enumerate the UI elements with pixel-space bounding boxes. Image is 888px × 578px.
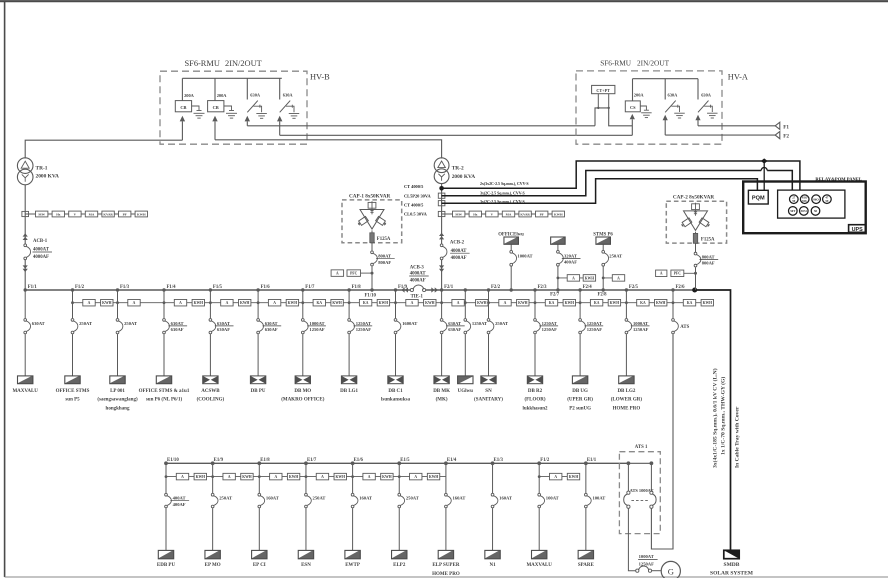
svg-text:400AF: 400AF [564,260,577,265]
wire F2/6 ATS feeder down to transfer switch [651,334,673,549]
svg-text:Hz: Hz [473,213,478,217]
metering rail under main bus [73,302,713,304]
feeder UG (UGlwu) [458,288,488,394]
svg-text:KWH: KWH [332,301,342,305]
svg-text:400AT: 400AT [173,496,186,501]
load-break switch 630A no.1 (HV-B) [245,78,267,126]
svg-text:3x(4x1/C-185 Sq.mm.), 0.6/1 kV: 3x(4x1/C-185 Sq.mm.), 0.6/1 kV CV (L,N) [712,368,719,468]
svg-text:KWH: KWH [569,475,579,479]
svg-text:A: A [179,301,182,305]
PQM wire 2 with cable label and hop [442,168,793,196]
svg-text:50: 50 [814,209,818,213]
svg-text:4000AF: 4000AF [451,256,467,261]
svg-text:F2: F2 [783,134,789,140]
wire CB1 to TR-1 [25,140,182,158]
svg-text:HOME PRO: HOME PRO [613,407,641,412]
svg-text:250AT: 250AT [79,321,92,326]
svg-text:F1/5: F1/5 [213,285,223,290]
svg-text:EWTP: EWTP [345,563,360,568]
fuse F125A (CAP-1) [370,230,391,242]
svg-text:200A: 200A [184,93,195,98]
bus node F1/10 (CAP-1 tap) [370,288,373,291]
svg-text:1250AT: 1250AT [542,321,557,326]
svg-text:630A: 630A [701,92,712,97]
PFC controller stub (CAP-2) [656,270,697,277]
svg-text:3x(2C-2.5 Sq.mm.), CVV-S: 3x(2C-2.5 Sq.mm.), CVV-S [480,191,525,195]
switch CS 200A (HV-A) [625,79,651,136]
svg-text:160AT: 160AT [499,496,512,501]
PQM wire 1 with cable label [442,161,800,190]
svg-text:lsunkansuksa: lsunkansuksa [381,398,410,403]
svg-text:F1/7: F1/7 [305,285,315,290]
svg-text:CAP-2 8x50KVAR: CAP-2 8x50KVAR [673,195,715,201]
wire ACB-2 to bus [441,260,443,290]
svg-text:(FLOOR): (FLOOR) [524,398,545,403]
svg-text:A: A [411,301,414,305]
svg-text:E1/9: E1/9 [214,458,224,463]
svg-text:DB LG2: DB LG2 [617,389,635,394]
svg-text:F1/9: F1/9 [398,285,408,290]
HV-B internal bus [182,77,281,79]
air circuit breaker ACB-2 4000AT/4000AF [439,233,470,272]
svg-text:1250AT: 1250AT [472,321,487,326]
svg-text:PF: PF [123,213,127,217]
svg-text:F2/4: F2/4 [583,285,593,290]
breaker 800AT/800AF (CAP-1) [371,243,395,290]
svg-text:800AF: 800AF [702,261,715,266]
SMDB SOLAR SYSTEM load [710,550,754,576]
svg-text:F2/5: F2/5 [629,285,639,290]
svg-text:A: A [133,301,136,305]
circuit breaker CB2 200A (HV-B) [208,78,237,140]
svg-text:KWH: KWH [656,301,666,305]
wire diamond to PQM meter [763,161,765,190]
svg-text:MA: MA [89,213,95,217]
svg-text:A: A [617,276,620,280]
svg-text:KWH: KWH [288,301,298,305]
outgoing feeder arrow F2 [775,132,789,140]
feeder E1/5 (ELP2) [392,458,440,568]
svg-text:SMDB: SMDB [724,562,740,568]
svg-text:A: A [572,276,575,280]
svg-text:F125A: F125A [377,237,391,242]
svg-text:OFFICE STMS & a1u1: OFFICE STMS & a1u1 [139,389,190,394]
svg-text:A: A [88,301,91,305]
svg-text:E1/4: E1/4 [447,458,457,463]
wire ACB-1 to bus [24,260,26,290]
svg-text:1250AT: 1250AT [587,321,602,326]
automatic transfer switch ATS 1 enclosure [619,445,660,534]
feeder E1/4 (ELP SUPER) [432,458,465,577]
svg-text:630A: 630A [250,93,261,98]
svg-text:F1/2: F1/2 [75,285,85,290]
svg-text:SN: SN [485,389,492,394]
svg-text:100AT: 100AT [592,496,605,501]
svg-text:KVAR: KVAR [520,213,530,217]
svg-text:KWH: KWH [240,301,250,305]
svg-text:N1: N1 [489,563,496,568]
svg-text:DB R2: DB R2 [528,389,543,394]
load-break switch 630A no.2 (HV-B) [277,78,299,135]
svg-text:E1/5: E1/5 [400,458,410,463]
svg-text:4000AF: 4000AF [410,279,426,284]
svg-text:KA: KA [687,301,693,305]
svg-text:ATS 1: ATS 1 [635,445,648,450]
svg-text:DB C1: DB C1 [388,389,403,394]
svg-text:F2/3: F2/3 [538,285,548,290]
svg-text:A: A [504,301,507,305]
svg-text:CT+PT: CT+PT [596,88,610,93]
svg-text:250AT: 250AT [495,321,508,326]
svg-text:A: A [228,475,231,479]
svg-text:ESN: ESN [301,563,311,568]
SMDB solar feeder wire [695,290,731,550]
svg-text:SPARE: SPARE [578,563,595,568]
svg-text:MW: MW [455,213,462,217]
svg-text:800AT: 800AT [702,254,715,259]
svg-text:KWH: KWH [429,475,439,479]
PQM wire 3 with cable label [442,179,758,204]
capacitor bank CAP-2 8x50KVAR [666,195,726,243]
CT tap TR-1 [22,211,29,216]
svg-text:F1/8: F1/8 [352,285,362,290]
svg-text:KWH: KWH [336,475,346,479]
svg-text:250AT: 250AT [219,496,232,501]
svg-text:HV-A: HV-A [728,72,748,81]
feeder F1/1 (MAXVALU) [12,285,44,394]
svg-text:630AT: 630AT [171,321,184,326]
svg-text:E1/7: E1/7 [307,458,317,463]
relay 86O [812,195,821,204]
svg-text:630AT: 630AT [265,321,278,326]
svg-text:250AT: 250AT [609,253,622,258]
svg-text:(MAKRO OFFICE): (MAKRO OFFICE) [281,398,325,403]
svg-text:160AT: 160AT [359,496,372,501]
svg-text:DB PU: DB PU [251,389,266,394]
svg-text:F125A: F125A [701,238,715,243]
svg-text:SF6-RMU: SF6-RMU [185,59,220,68]
svg-text:1250AF: 1250AF [542,327,558,332]
svg-text:81U: 81U [802,199,808,203]
svg-text:F1/3: F1/3 [120,285,130,290]
feeder E1/1 (SPARE) [578,458,606,568]
svg-text:DB UG: DB UG [572,389,588,394]
svg-text:TR-2: TR-2 [452,166,464,172]
svg-text:DB LG1: DB LG1 [340,389,358,394]
svg-text:KWH: KWH [518,301,528,305]
main LV bus right section [426,289,695,291]
CT tap 2 TR-2 [438,193,445,198]
load-break switch 630A no.1 (HV-A) [663,79,685,135]
meter row TR-2: MW Hz V MA KVAR PF KWH [442,211,565,217]
svg-text:A: A [226,301,229,305]
svg-text:CB: CB [180,105,186,110]
svg-text:LP 001: LP 001 [110,389,125,394]
ATS switch right [650,463,656,508]
relay 50T [789,207,798,216]
feeder E1/8 (EP CI) [252,458,300,568]
svg-text:630A: 630A [668,92,679,97]
svg-text:2000 KVA: 2000 KVA [452,174,476,180]
svg-text:PQM: PQM [752,196,765,202]
svg-text:A: A [181,475,184,479]
node ATS normal side [627,461,631,465]
feeder F1/8 (DB LG1) [340,285,389,394]
svg-text:CL5P20 30VA: CL5P20 30VA [404,193,431,198]
feeder F2/1 (DB MK) [433,285,465,403]
svg-text:86O: 86O [813,198,819,202]
svg-text:100AT: 100AT [546,496,559,501]
SF6-RMU HV-A enclosure (dashed) [576,59,748,145]
svg-text:(MK): (MK) [436,398,448,403]
svg-text:ATS: ATS [680,325,689,330]
svg-text:UPS: UPS [852,227,863,233]
svg-text:ACB-1: ACB-1 [33,239,48,244]
svg-text:MAXVALU: MAXVALU [526,563,552,568]
bus end node (to SMDB feeder) [692,288,697,293]
svg-text:KVAR: KVAR [103,213,113,217]
svg-text:KWH: KWH [565,301,575,305]
svg-text:MAXVALU: MAXVALU [12,389,38,394]
feeder F1/6 (DB PU) [250,285,298,394]
outgoing feeder arrow F1 [775,122,789,130]
metering rail under emergency bus [166,476,446,478]
wire HV-A upper feed bump through CT+PT [595,108,632,126]
svg-text:1250AF: 1250AF [309,327,325,332]
svg-text:EP MO: EP MO [205,563,221,568]
svg-text:A: A [457,301,460,305]
svg-text:CB: CB [213,105,219,110]
svg-text:2000 KVA: 2000 KVA [36,174,60,180]
wire HV-B switch2 to HV-A lower feed [280,134,633,136]
svg-text:50T: 50T [790,209,795,213]
svg-text:59: 59 [792,199,796,203]
svg-text:hongkhang: hongkhang [106,407,130,412]
CT tap 3 TR-2 [438,201,445,206]
feeder F1/5 (ACSWB) [197,285,251,403]
wire HV-A switch1 to feeder F2 [665,134,775,136]
svg-text:630AF: 630AF [265,327,278,332]
transformer TR-2 2000 KVA (delta-wye) [434,158,475,184]
svg-text:EDB PU: EDB PU [157,563,176,568]
svg-text:320AT: 320AT [564,253,577,258]
svg-text:F2/8: F2/8 [598,293,608,298]
svg-text:CAP-1 8x50KVAR: CAP-1 8x50KVAR [349,193,391,199]
svg-text:PFC: PFC [350,272,358,276]
svg-text:KA: KA [594,301,600,305]
svg-text:2IN/2OUT: 2IN/2OUT [637,59,670,68]
svg-text:KWH: KWH [425,301,435,305]
svg-text:CS: CS [630,105,636,110]
svg-text:1250AF: 1250AF [639,561,655,566]
svg-text:EP CI: EP CI [253,563,266,568]
svg-text:400AF: 400AF [173,502,186,507]
feeder F2/4 (DB UG) [567,285,620,411]
svg-text:F2/7: F2/7 [550,293,560,298]
svg-text:800AT: 800AT [378,254,391,259]
feeder F1/9 (DB C1) [381,285,436,403]
svg-text:A: A [554,475,557,479]
svg-text:ACSWB: ACSWB [201,389,220,394]
feeder F1/7 (DB MO) [281,285,343,403]
air circuit breaker ACB-1 4000AT/4000AF [23,233,52,272]
svg-text:sun P5: sun P5 [65,398,80,403]
feeder E1/7 (ESN) [298,458,346,568]
svg-text:50/51: 50/51 [801,210,808,213]
svg-text:DB MO: DB MO [294,389,311,394]
svg-text:E1/6: E1/6 [354,458,364,463]
UPS box [849,225,866,233]
relay 81O/81U [800,195,809,204]
feeder F1/2 (OFFICE STMS) [56,285,113,403]
svg-text:2IN/2OUT: 2IN/2OUT [225,59,262,68]
power quality meter PQM [748,190,768,204]
svg-text:1000AT: 1000AT [639,554,654,559]
meter row TR-1: MW Hz V MA KVAR PF KWH [25,211,147,217]
svg-text:(UPER GR): (UPER GR) [567,398,593,403]
svg-text:KA: KA [317,301,323,305]
svg-text:F1/2: F1/2 [540,458,550,463]
svg-text:KWH: KWH [585,276,595,280]
svg-text:CT 4000/5: CT 4000/5 [404,202,424,207]
svg-text:F1/6: F1/6 [261,285,271,290]
breaker 800AT/800AF (CAP-2) [694,243,718,290]
svg-text:1000AT: 1000AT [309,321,324,326]
svg-text:OFFICE STMS: OFFICE STMS [56,389,90,394]
svg-text:800AF: 800AF [378,260,391,265]
ATS switch left 1000AT [624,463,654,508]
capacitor bank CAP-1 8x50KVAR [342,193,402,242]
svg-text:630AF: 630AF [171,327,184,332]
svg-text:KA: KA [640,301,646,305]
svg-text:ACB-3: ACB-3 [410,265,425,270]
feeder F2/7 320AT/400AF (above bus) [551,237,596,292]
svg-text:MA: MA [506,213,512,217]
svg-text:(SANITARY): (SANITARY) [474,398,503,403]
PFC controller stub (CAP-1) [331,270,373,277]
feeder E1/9 (EP MO) [205,458,253,568]
wire ATS left to generator breaker [628,508,635,570]
svg-text:CT 4000/5: CT 4000/5 [404,184,424,189]
feeder F2/3 (DB R2) [522,285,575,411]
svg-text:E1/10: E1/10 [167,458,179,463]
relay 50/51N [800,207,809,216]
svg-text:F2/2: F2/2 [491,285,501,290]
svg-text:SOLAR SYSTEM: SOLAR SYSTEM [710,571,754,577]
wire CB2 to TR-2 [215,140,442,159]
CT junction node (PQM wire 1) [439,186,444,191]
svg-text:A: A [273,301,276,305]
svg-text:E1/8: E1/8 [260,458,270,463]
svg-text:TR-1: TR-1 [36,165,48,171]
svg-text:A: A [368,475,371,479]
feeder F2/6 (F2/6) [671,285,713,334]
feeder OFFICEmai 1000AT (above bus) [498,232,532,291]
svg-text:KWH: KWH [477,301,487,305]
wire HV-B switch1 to HV-A upper feed [247,125,595,127]
svg-text:630AT: 630AT [448,321,461,326]
transformer TR-1 2000 KVA (delta-wye) [17,158,59,185]
CT labels TR-2 [404,184,431,216]
bus tie breaker ACB-3 TIE-1 4000AT/4000AF [401,265,438,299]
svg-text:PFC: PFC [674,272,682,276]
protection relay group box [778,190,845,218]
svg-text:1250AT: 1250AT [356,321,371,326]
feeder F1/3 (LP 001) [97,285,140,411]
circuit breaker CB1 200A (HV-B) [175,78,204,140]
feeder F2/8 STMS P6 250AT (above bus) [593,232,624,291]
svg-text:2x(3x2C-2.5 Sq.mm.), CVV-S: 2x(3x2C-2.5 Sq.mm.), CVV-S [480,182,529,186]
svg-text:KWH: KWH [703,301,713,305]
wire TR-2 riser [441,184,443,244]
svg-text:F2/6: F2/6 [676,285,686,290]
feeder F2/2 (SN) [474,285,529,403]
HV-A internal bus [633,78,699,80]
svg-text:sun P6 (NL P6/1): sun P6 (NL P6/1) [146,398,183,403]
feeder E1/6 (EWTP) [345,458,393,568]
svg-text:P2 sunUG: P2 sunUG [569,407,591,412]
svg-text:F1/1: F1/1 [28,285,38,290]
svg-text:200A: 200A [634,92,645,97]
svg-text:HOME PRO: HOME PRO [432,572,460,577]
svg-text:KWH: KWH [137,213,146,217]
svg-text:CL0.5 30VA: CL0.5 30VA [404,211,428,216]
feeder E1/3 (N1) [485,458,512,568]
svg-text:E1/1: E1/1 [587,458,597,463]
CT tap 4 TR-2 [438,211,445,216]
svg-text:A: A [660,272,663,276]
svg-text:KWH: KWH [196,475,206,479]
svg-text:E1/3: E1/3 [494,458,504,463]
svg-text:630A: 630A [283,93,294,98]
svg-text:HV-B: HV-B [310,72,330,81]
svg-text:In Cable Tray with Cover: In Cable Tray with Cover [735,406,741,468]
svg-text:KWH: KWH [289,475,299,479]
relay 47 [823,195,832,204]
svg-text:TIE-1: TIE-1 [411,294,424,299]
svg-text:1250AF: 1250AF [633,327,649,332]
svg-text:G: G [668,567,674,577]
svg-text:ELP2: ELP2 [393,563,406,568]
svg-text:(saengsawanglang): (saengsawanglang) [97,398,138,403]
svg-text:160AT: 160AT [453,496,466,501]
svg-text:A: A [321,475,324,479]
svg-text:DB MK: DB MK [433,389,450,394]
svg-text:160AT: 160AT [266,496,279,501]
svg-text:630AT: 630AT [217,321,230,326]
svg-text:KWH: KWH [379,301,389,305]
wire TR-1 to meters [24,185,26,244]
feeder F1/4 (OFFICE STMS & a1u1) [139,285,205,403]
svg-text:KWH: KWH [382,475,392,479]
svg-text:F1/4: F1/4 [167,285,177,290]
ATS mechanical link (dashed) [631,500,648,502]
svg-text:UGlwu: UGlwu [458,389,474,394]
svg-text:1250AF: 1250AF [356,327,372,332]
svg-text:1600AT: 1600AT [402,321,417,326]
svg-text:A: A [414,475,417,479]
svg-text:200A: 200A [217,93,228,98]
svg-text:PF: PF [540,213,544,217]
CT+PT metering unit (HV-A) [592,85,615,109]
svg-text:630AF: 630AF [217,327,230,332]
generator G [661,561,680,578]
svg-text:Hz: Hz [56,213,61,217]
svg-text:3x(2C-2.5 Sq.mm.), CVV-S: 3x(2C-2.5 Sq.mm.), CVV-S [480,200,525,204]
main LV bus left section [25,289,410,291]
relay 27/59 [790,195,799,204]
svg-text:ACB-2: ACB-2 [450,241,465,246]
